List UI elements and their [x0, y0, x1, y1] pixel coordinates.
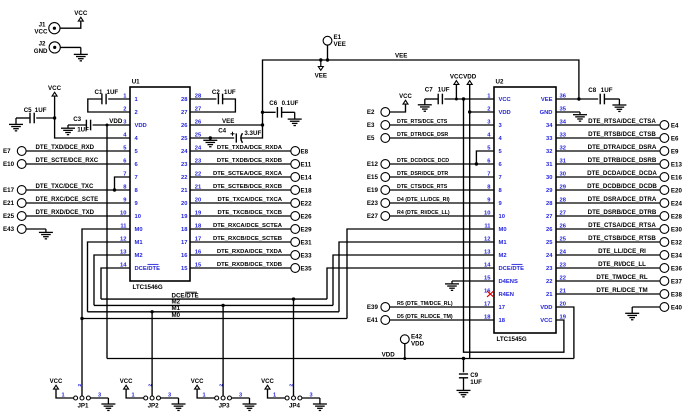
- svg-text:E5: E5: [367, 135, 375, 142]
- svg-text:LTC1545G: LTC1545G: [497, 336, 527, 343]
- wire U1 pin 7 jog: [115, 177, 131, 190]
- ground (J2): [80, 47, 82, 54]
- svg-text:27: 27: [546, 214, 552, 220]
- wire E41 to U2 pin 18: [390, 319, 495, 321]
- wire U2 pin 25 to E32: [556, 241, 660, 243]
- no-connect X on U2 pin 16 R4EN: [487, 291, 494, 297]
- svg-text:DTE_TXD/DCE_RXD: DTE_TXD/DCE_RXD: [36, 144, 95, 151]
- test point E20: [660, 186, 669, 195]
- capacitor C1: [101, 94, 103, 105]
- svg-text:VCC: VCC: [540, 318, 553, 324]
- svg-text:VCC: VCC: [399, 94, 412, 100]
- svg-text:U2: U2: [496, 79, 504, 86]
- wire U2 pin 15 D4ENS to ground: [452, 280, 494, 282]
- svg-text:DTE_LL/DCE_RI: DTE_LL/DCE_RI: [598, 248, 646, 255]
- svg-text:R5 (DTE_TM/DCE_RL): R5 (DTE_TM/DCE_RL): [397, 301, 453, 307]
- wire JP4 to bus: [293, 299, 295, 396]
- svg-text:28: 28: [546, 201, 553, 207]
- capacitor C2: [217, 94, 219, 105]
- svg-text:E2: E2: [367, 109, 375, 116]
- junction JP4 bus tap: [292, 297, 295, 300]
- test point E40: [660, 303, 669, 312]
- svg-text:E17: E17: [3, 187, 15, 194]
- svg-text:VEE: VEE: [222, 118, 234, 125]
- wire C4 to VEE: [241, 125, 262, 138]
- svg-text:E14: E14: [301, 174, 313, 181]
- wire C5 to ground: [16, 117, 30, 119]
- svg-text:D5 (DTE_RL/DCE_TM): D5 (DTE_RL/DCE_TM): [397, 314, 453, 320]
- svg-text:U1: U1: [132, 79, 140, 86]
- junction E1/VEE rail: [326, 58, 329, 61]
- svg-text:DTE_RXC/DCE_SCTE: DTE_RXC/DCE_SCTE: [36, 196, 99, 203]
- svg-text:VEE: VEE: [541, 97, 553, 103]
- wire JP4 pin 3 to ground: [302, 397, 320, 399]
- test point E31: [291, 238, 300, 247]
- svg-text:E13: E13: [671, 161, 683, 168]
- test point E19: [381, 186, 390, 195]
- jumper JP3 pin 3 circle: [228, 396, 232, 400]
- svg-text:C2: C2: [212, 89, 220, 96]
- wire M1 bus: [88, 311, 340, 313]
- svg-text:M2: M2: [135, 253, 143, 259]
- junction C4 ground tap: [209, 136, 212, 139]
- svg-text:E7: E7: [3, 148, 11, 155]
- svg-text:DCE/DTE: DCE/DTE: [499, 266, 525, 272]
- wire U1 pin 16 to E33: [190, 254, 291, 256]
- wire DCE/DTE bus: [101, 298, 327, 300]
- svg-text:DCE/DTE: DCE/DTE: [172, 292, 199, 299]
- wire U2 pin 23 to E36: [556, 267, 660, 269]
- test point E29: [291, 225, 300, 234]
- wire VCC to JP1 pin 1: [56, 390, 73, 398]
- test point E30: [660, 225, 669, 234]
- svg-text:7: 7: [499, 175, 502, 181]
- svg-text:17: 17: [181, 240, 187, 246]
- svg-text:M0: M0: [172, 312, 181, 319]
- svg-text:C5: C5: [24, 107, 32, 114]
- wire E5 to U2 pin 4: [390, 137, 495, 139]
- svg-text:1UF: 1UF: [224, 89, 236, 96]
- wire J1 to VCC symbol: [60, 22, 81, 28]
- svg-text:JP3: JP3: [219, 403, 231, 410]
- junction VEE arrow on rail: [319, 58, 322, 61]
- wire E3 to U2 pin 3: [390, 124, 495, 126]
- svg-text:DTE_RXCA/DCE_SCTEA: DTE_RXCA/DCE_SCTEA: [213, 223, 283, 229]
- wire E39 to U2 pin 17: [390, 306, 495, 308]
- svg-text:E31: E31: [301, 239, 313, 246]
- wire VCC to JP2 pin 1: [126, 390, 143, 398]
- wire U2 pin 30 to E16: [556, 176, 660, 178]
- test point E36: [660, 264, 669, 273]
- wire U2 pin 26 to E30: [556, 228, 660, 230]
- wire U1 pin 25 to C4: [190, 137, 234, 139]
- wire U2 pin 24 to E34: [556, 254, 660, 256]
- svg-text:1UF: 1UF: [77, 126, 89, 133]
- svg-text:J2: J2: [39, 41, 46, 48]
- svg-text:M2: M2: [499, 253, 507, 259]
- test point E23: [381, 199, 390, 208]
- wire VEE rail (top): [263, 60, 579, 125]
- wire U2 pin 14 DCE/DTE to bus: [327, 268, 494, 299]
- wire E23 to U2 pin 9: [390, 202, 495, 204]
- svg-text:14: 14: [484, 262, 491, 268]
- wire VCC vertical to pin 19 loop: [464, 99, 564, 352]
- power symbol VCC (JP4): [265, 385, 270, 389]
- wire U1 pin 26 VEE: [190, 124, 263, 126]
- jumper JP2 pin 2 circle: [150, 396, 154, 400]
- svg-text:E21: E21: [3, 200, 15, 207]
- wire U1 pin 11 M0 to bus and JP1: [82, 229, 130, 396]
- wire U2 pin 2 VDD: [470, 111, 494, 113]
- svg-text:E6: E6: [671, 135, 679, 142]
- svg-text:VEE: VEE: [334, 41, 346, 48]
- svg-text:23: 23: [546, 266, 553, 272]
- svg-text:18: 18: [499, 318, 506, 324]
- op-amp U1 LTC1546G body: [130, 87, 190, 281]
- test point E38: [660, 290, 669, 299]
- svg-text:VCC: VCC: [34, 29, 48, 36]
- capacitor C9 lead: [463, 359, 465, 373]
- svg-text:1UF: 1UF: [35, 107, 47, 114]
- test point E3: [381, 121, 390, 130]
- svg-text:E27: E27: [367, 213, 379, 220]
- svg-text:22: 22: [546, 279, 552, 285]
- svg-text:23: 23: [181, 162, 188, 168]
- test point E14: [291, 173, 300, 182]
- wire C2 to U1 pin 27: [190, 99, 235, 112]
- svg-text:E15: E15: [367, 174, 379, 181]
- test point E15: [381, 173, 390, 182]
- op-amp U2 LTC1545G body: [494, 87, 556, 333]
- ground (C5): [15, 118, 17, 124]
- svg-text:M1: M1: [499, 240, 508, 246]
- svg-text:VEE: VEE: [395, 53, 407, 60]
- svg-text:DTE_TXDB/DCE_RXDB: DTE_TXDB/DCE_RXDB: [217, 158, 282, 164]
- wire J2 to ground: [60, 46, 81, 48]
- test point E21: [17, 199, 26, 208]
- junction E42/VDD rail: [403, 357, 406, 360]
- wire M2 bus: [94, 304, 333, 306]
- svg-text:E1: E1: [334, 34, 342, 41]
- svg-text:DTE_DSRA/DCE_DTRA: DTE_DSRA/DCE_DTRA: [588, 196, 657, 203]
- capacitor C5: [29, 113, 31, 124]
- svg-text:DTE_RTSB/DCE_CTSB: DTE_RTSB/DCE_CTSB: [588, 131, 656, 138]
- svg-text:E39: E39: [367, 304, 379, 311]
- svg-text:LTC1546G: LTC1546G: [133, 284, 163, 291]
- capacitor C4 plus sign: [231, 133, 235, 135]
- test point E12: [381, 160, 390, 169]
- test point E1 (VEE): [323, 36, 332, 45]
- test point E41: [381, 316, 390, 325]
- svg-text:E28: E28: [671, 213, 683, 220]
- ground (JP1): [107, 398, 109, 404]
- svg-text:19: 19: [181, 214, 188, 220]
- svg-text:0.1UF: 0.1UF: [282, 100, 299, 107]
- svg-text:DTE_CTSA/DCE_RTSA: DTE_CTSA/DCE_RTSA: [588, 222, 656, 229]
- svg-text:1UF: 1UF: [470, 379, 482, 386]
- wire U1 pin 21 to E18: [190, 189, 291, 191]
- svg-text:21: 21: [181, 188, 188, 194]
- svg-text:29: 29: [546, 188, 553, 194]
- wire E1 stem to VEE rail: [327, 45, 329, 60]
- wire U1 pin 17 to E31: [190, 241, 291, 243]
- capacitor C1 wire pin1: [108, 98, 130, 100]
- svg-text:VCC: VCC: [50, 379, 63, 385]
- svg-text:1UF: 1UF: [107, 89, 119, 96]
- svg-text:E35: E35: [301, 265, 313, 272]
- test point E43: [17, 225, 26, 234]
- wire U1 pin 22 to E14: [190, 176, 291, 178]
- svg-text:C6: C6: [269, 100, 277, 107]
- svg-text:DTE_RXCB/DCE_SCTEB: DTE_RXCB/DCE_SCTEB: [213, 236, 282, 242]
- wire U2 pin 29 to E20: [556, 189, 660, 191]
- wire U1 pin 13 M2 to bus: [94, 255, 130, 305]
- test point E6: [660, 134, 669, 143]
- svg-text:E10: E10: [3, 161, 15, 168]
- wire VCC to JP4 pin 1: [268, 390, 285, 398]
- svg-text:DTE_DSR/DCE_DTR: DTE_DSR/DCE_DTR: [397, 171, 448, 177]
- jumper JP3 pin 2 circle: [221, 396, 225, 400]
- junction JP3 bus tap: [221, 304, 224, 307]
- jumper JP4 pin 3 circle: [298, 396, 302, 400]
- svg-text:VDD: VDD: [135, 123, 147, 129]
- test point E27: [381, 212, 390, 221]
- jumper JP4 pin 2 circle: [292, 396, 296, 400]
- junction pin5/pin6 net: [475, 162, 478, 165]
- wire U1 pin 18 to E29: [190, 228, 291, 230]
- svg-text:DTE_DSRB/DCE_DTRB: DTE_DSRB/DCE_DTRB: [588, 209, 657, 216]
- wire U1 pin 24 to E8: [190, 150, 291, 152]
- jumper JP1 pin 3 circle: [86, 396, 90, 400]
- wire C6 to VEE: [263, 111, 276, 113]
- svg-text:VCC: VCC: [48, 85, 62, 92]
- svg-text:VCC: VCC: [499, 97, 512, 103]
- wire U2 pin 27 to E28: [556, 215, 660, 217]
- svg-text:24: 24: [181, 149, 188, 155]
- svg-text:VCC: VCC: [120, 379, 133, 385]
- jumper JP4 pin 1 circle: [285, 396, 289, 400]
- wire E12 to U2 pin 6: [390, 163, 495, 165]
- wire U2 pin 35 GND: [556, 111, 580, 113]
- svg-text:M1: M1: [172, 305, 181, 312]
- svg-text:2: 2: [77, 384, 83, 387]
- svg-text:DTE_CTSB/DCE_RTSB: DTE_CTSB/DCE_RTSB: [588, 235, 656, 242]
- svg-text:DTE_TM/DCE_RL: DTE_TM/DCE_RL: [596, 274, 647, 281]
- svg-text:1UF: 1UF: [438, 87, 450, 94]
- wire U2 pin 21 to E38: [556, 293, 660, 295]
- wire U2 pin 33 to E6: [556, 137, 660, 139]
- wire E25 to U1 pin 10: [26, 215, 130, 217]
- svg-text:13: 13: [484, 249, 491, 255]
- wire C7 to U2 pin 1: [444, 98, 494, 100]
- wire U1 pin 19 to E26: [190, 215, 291, 217]
- svg-text:C1: C1: [95, 89, 103, 96]
- svg-text:DTE_RXDA/DCE_TXDA: DTE_RXDA/DCE_TXDA: [217, 249, 283, 255]
- svg-text:33: 33: [546, 136, 553, 142]
- svg-text:1: 1: [61, 392, 64, 398]
- svg-text:R4 (DTE_RI/DCE_LL): R4 (DTE_RI/DCE_LL): [397, 210, 450, 216]
- svg-text:DCE/DTE: DCE/DTE: [135, 266, 161, 272]
- wire E40 to ground: [632, 306, 660, 308]
- wire C8 to ground: [604, 98, 619, 100]
- test point E33: [291, 251, 300, 260]
- wire C3 to ground: [68, 124, 86, 126]
- svg-text:15: 15: [181, 266, 188, 272]
- svg-text:M0: M0: [135, 227, 143, 233]
- ground (C8): [618, 99, 620, 105]
- svg-text:28: 28: [181, 97, 188, 103]
- power symbol VCC (JP3): [195, 385, 200, 389]
- svg-text:E19: E19: [367, 187, 379, 194]
- test point E32: [660, 238, 669, 247]
- svg-text:21: 21: [546, 292, 553, 298]
- svg-text:E30: E30: [671, 226, 683, 233]
- svg-text:E20: E20: [671, 187, 683, 194]
- wire U2 pin 12 M1 to bus: [339, 242, 494, 312]
- wire U2 pin 13 M2 to bus: [333, 255, 494, 305]
- svg-text:VCC: VCC: [191, 379, 204, 385]
- jumper JP1 pin 1 circle: [74, 396, 78, 400]
- junction VDD vertical / pin 3 wire: [106, 124, 109, 127]
- wire JP2 pin 3 to ground: [161, 397, 179, 399]
- svg-text:DTE_DCDA/DCE_DCDA: DTE_DCDA/DCE_DCDA: [587, 170, 657, 177]
- svg-text:31: 31: [546, 162, 553, 168]
- svg-text:DTE_DCDB/DCE_DCDB: DTE_DCDB/DCE_DCDB: [587, 183, 657, 190]
- wire U2 pin 31 to E13: [556, 163, 660, 165]
- svg-text:1UF: 1UF: [601, 87, 613, 94]
- power symbol VCC (JP2): [124, 385, 129, 389]
- svg-text:26: 26: [546, 227, 553, 233]
- svg-text:25: 25: [181, 136, 188, 142]
- junction M0 bus / JP1: [80, 317, 83, 320]
- wire E19 to U2 pin 8: [390, 189, 495, 191]
- wire VDD vertical (to pin 2 and VDD rail): [469, 84, 471, 358]
- svg-text:16: 16: [181, 253, 188, 259]
- test point E37: [660, 277, 669, 286]
- svg-text:DTE_RTSA/DCE_CTSA: DTE_RTSA/DCE_CTSA: [588, 118, 656, 125]
- svg-text:DTE_RL/DCE_TM: DTE_RL/DCE_TM: [596, 287, 647, 294]
- wire U2 pin 36 VEE: [556, 98, 598, 100]
- wire C7 to ground: [425, 98, 438, 100]
- svg-text:25: 25: [546, 240, 553, 246]
- ground (E40): [631, 307, 633, 313]
- wire U1 pin 20 to E22: [190, 202, 291, 204]
- junction JP2 bus tap: [150, 310, 153, 313]
- ground (E43): [45, 229, 47, 232]
- wire JP1 pin 3 to ground: [91, 397, 109, 399]
- power symbol VCC (U2): [454, 81, 459, 85]
- test point E17: [17, 186, 26, 195]
- svg-text:E9: E9: [671, 148, 679, 155]
- svg-text:E25: E25: [3, 213, 15, 220]
- svg-text:VCC: VCC: [450, 73, 464, 80]
- test point E2: [381, 108, 390, 117]
- svg-text:C7: C7: [425, 87, 433, 94]
- svg-text:VCC: VCC: [261, 379, 274, 385]
- wire U2 pin 20 VDD loop: [556, 307, 574, 359]
- jumper JP2 pin 1 circle: [144, 396, 148, 400]
- svg-text:D4 (DTE_LL/DCE_RI): D4 (DTE_LL/DCE_RI): [397, 197, 450, 203]
- svg-text:VDD: VDD: [411, 340, 425, 347]
- capacitor C6: [276, 107, 278, 118]
- wire JP3 pin 3 to ground: [232, 397, 250, 399]
- junction C5/VCC: [53, 116, 56, 119]
- svg-text:24: 24: [546, 253, 553, 259]
- svg-text:DTE_DTR/DCE_DSR: DTE_DTR/DCE_DSR: [397, 132, 448, 138]
- wire U2 pin 22 to E37: [556, 280, 660, 282]
- jumper JP3 pin 1 circle: [215, 396, 219, 400]
- svg-text:2: 2: [147, 384, 153, 387]
- svg-text:3.3UF: 3.3UF: [244, 130, 261, 137]
- svg-text:DTE_TXCB/DCE_TXCB: DTE_TXCB/DCE_TXCB: [218, 210, 282, 216]
- wire E21 to U1 pin 9: [26, 202, 130, 204]
- svg-text:22: 22: [181, 175, 187, 181]
- svg-text:E24: E24: [671, 200, 683, 207]
- ground (U2 pin 35): [579, 112, 581, 115]
- svg-text:GND: GND: [540, 110, 553, 116]
- test point E26: [291, 212, 300, 221]
- svg-text:17: 17: [499, 305, 505, 311]
- svg-text:E32: E32: [671, 239, 683, 246]
- svg-text:VEE: VEE: [315, 73, 327, 80]
- wire VCC to U1 pin 4: [55, 98, 130, 139]
- svg-text:JP4: JP4: [289, 403, 301, 410]
- ground (C6): [294, 112, 296, 119]
- junction C6 tap on VEE: [261, 111, 264, 114]
- junction VCC vertical / pin 1 wire: [462, 97, 465, 100]
- wire VCC to JP3 pin 1: [197, 390, 214, 398]
- test point E39: [381, 303, 390, 312]
- wire VDD vertical to VDD rail: [106, 125, 108, 359]
- test point E18: [291, 186, 300, 195]
- svg-text:32: 32: [546, 149, 552, 155]
- svg-text:D4ENS: D4ENS: [499, 279, 518, 285]
- wire U2 pin 5 jog: [476, 151, 494, 164]
- svg-text:DTE_RTS/DCE_CTS: DTE_RTS/DCE_CTS: [397, 119, 448, 125]
- power symbol VCC (top-left): [78, 17, 83, 21]
- test point E8: [291, 147, 300, 156]
- svg-text:30: 30: [546, 175, 552, 181]
- svg-text:34: 34: [546, 123, 553, 129]
- svg-text:GND: GND: [34, 48, 48, 55]
- svg-text:E16: E16: [671, 174, 683, 181]
- capacitor C4 curved plate: [241, 133, 243, 143]
- svg-text:VDD: VDD: [499, 110, 511, 116]
- svg-text:E43: E43: [3, 226, 15, 233]
- svg-text:E26: E26: [301, 213, 313, 220]
- svg-text:E40: E40: [671, 304, 683, 311]
- test point E9: [660, 147, 669, 156]
- capacitor C4 plus plate: [235, 133, 237, 142]
- wire E10 to U1 pin 6: [26, 163, 130, 165]
- capacitor C8: [599, 94, 601, 105]
- svg-text:7: 7: [135, 175, 138, 181]
- svg-text:VDD: VDD: [382, 351, 396, 358]
- wire E27 to U2 pin 10: [390, 215, 495, 217]
- junction VCC arrow / pin 1 wire: [455, 98, 458, 101]
- test point E42: [400, 335, 409, 344]
- wire E42 stem: [404, 344, 406, 359]
- svg-text:DTE_CTS/DCE_RTS: DTE_CTS/DCE_RTS: [397, 184, 448, 190]
- svg-text:1: 1: [132, 392, 135, 398]
- svg-text:C3: C3: [73, 116, 81, 123]
- svg-text:VDD: VDD: [540, 305, 552, 311]
- svg-text:E4: E4: [671, 122, 679, 129]
- svg-text:E18: E18: [301, 187, 313, 194]
- capacitor C7: [437, 94, 439, 105]
- svg-text:DTE_RXDB/DCE_TXDB: DTE_RXDB/DCE_TXDB: [217, 262, 282, 268]
- svg-text:E38: E38: [671, 291, 683, 298]
